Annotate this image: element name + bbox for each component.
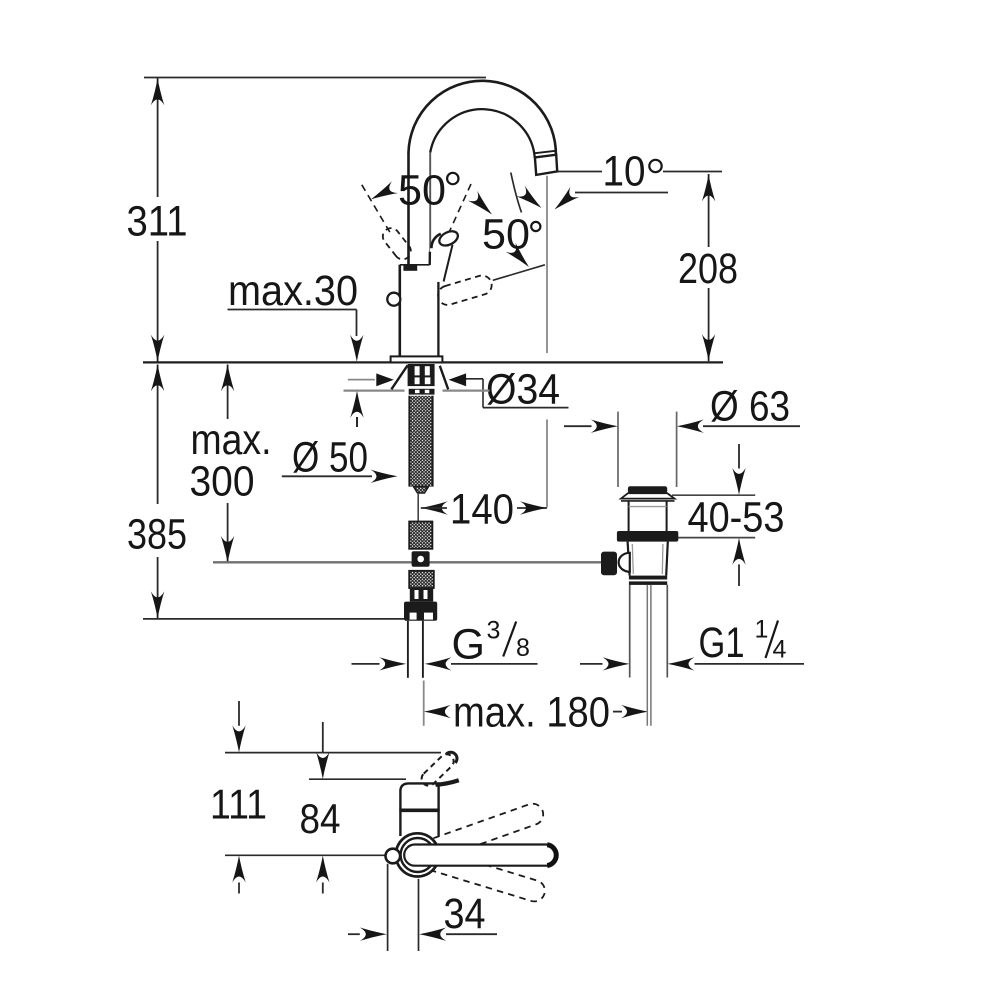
label diameter 50 with leader arrow <box>282 434 398 483</box>
cone washer right slant <box>440 366 448 390</box>
top view solid handle lever <box>404 845 557 866</box>
deck line (mounting surface) <box>143 361 723 363</box>
dashed closed-position lever (main view) <box>362 185 414 263</box>
drain body bottom bands <box>629 576 667 585</box>
svg-text:385: 385 <box>127 511 187 559</box>
drain neck <box>629 501 667 531</box>
dimension max. 180 <box>424 681 648 737</box>
axis line of open lever <box>493 265 545 281</box>
braided hose lower block <box>409 571 434 602</box>
svg-text:max.30: max.30 <box>228 267 358 315</box>
hole dimension wedge right <box>449 373 467 386</box>
label diameter 34 with bracket leader <box>462 366 569 414</box>
drain body <box>628 542 668 576</box>
dimension 84 <box>300 722 341 894</box>
angle 50 degrees (upper) <box>368 167 497 220</box>
svg-text:208: 208 <box>678 245 738 293</box>
water stream line <box>546 176 548 353</box>
svg-text:1: 1 <box>755 616 769 644</box>
svg-text:3: 3 <box>487 617 501 645</box>
svg-text:G1: G1 <box>699 619 745 667</box>
svg-text:84: 84 <box>300 795 341 842</box>
linkage rod nut <box>601 552 617 576</box>
dimension max. 300 <box>190 364 272 563</box>
svg-text:G: G <box>452 621 485 669</box>
faucet gooseneck spout outer arc <box>409 81 556 157</box>
svg-text:Ø 63: Ø 63 <box>710 383 790 431</box>
svg-text:max. 180: max. 180 <box>453 689 610 737</box>
spout tube left edge <box>407 152 410 265</box>
hole dimension wedge left <box>376 373 394 386</box>
dashed open-position lever (main view) <box>436 273 494 307</box>
supply pipe below nut <box>407 621 409 678</box>
dimension diameter 63 <box>564 383 800 488</box>
dimension 140 <box>421 486 547 534</box>
linkage ball housing <box>619 553 630 572</box>
faucet gooseneck spout inner arc <box>430 109 535 158</box>
drain tailpipe <box>647 585 651 726</box>
dimension 208 <box>678 174 738 361</box>
svg-text:50: 50 <box>482 211 530 259</box>
drain locknut ring <box>617 531 678 542</box>
svg-text:140: 140 <box>450 486 514 534</box>
top view closed dashed handle <box>419 751 459 788</box>
solid handle lever (main view) <box>430 228 461 282</box>
deck cross-section left lines <box>348 379 375 381</box>
deck cross-section right line <box>443 390 490 392</box>
svg-text:4: 4 <box>773 636 787 664</box>
svg-text:50: 50 <box>398 167 446 215</box>
svg-text:8: 8 <box>516 634 530 662</box>
dimension G1 1/4 <box>580 585 804 678</box>
lower reference line of 385 <box>143 618 404 620</box>
dimension 385 <box>127 364 187 618</box>
pop-up drain cap <box>628 486 667 493</box>
dimension 40-53 <box>672 444 785 586</box>
small screw circle on body <box>387 293 400 306</box>
dimension 311 <box>127 78 188 362</box>
linkage tee fitting <box>412 551 430 566</box>
flare connection nut G3/8 <box>404 602 437 621</box>
dimension G3/8 <box>352 617 538 671</box>
svg-text:Ø 50: Ø 50 <box>292 434 368 482</box>
top view: extension line at handle tip <box>225 752 441 754</box>
top view: extension line at handle axis <box>225 854 385 856</box>
top view base inner circle <box>401 838 435 872</box>
cone washer left slant <box>391 365 407 389</box>
dimension 111 <box>210 701 267 894</box>
spout tube right edge <box>429 152 431 265</box>
pop-up rod <box>417 493 419 523</box>
top view faucet body <box>399 783 439 836</box>
threaded shank block <box>408 364 435 395</box>
faucet body left edge <box>398 265 401 357</box>
angle 50 degrees (lower) <box>482 211 540 272</box>
svg-text:34: 34 <box>444 890 486 938</box>
svg-text:111: 111 <box>210 781 267 828</box>
svg-text:311: 311 <box>127 198 188 246</box>
svg-text:Ø34: Ø34 <box>486 366 560 414</box>
braided supply hose upper <box>409 396 432 493</box>
dark step on body shoulder <box>403 264 417 271</box>
label max.30 with leader <box>228 267 364 427</box>
svg-text:10: 10 <box>603 148 646 196</box>
label 10 degrees with lines <box>511 148 722 215</box>
top view small spout circle <box>386 849 401 864</box>
top view base outer circle <box>396 833 439 876</box>
drain flange <box>621 493 675 501</box>
base plate <box>391 356 443 362</box>
horizontal pop-up linkage rod <box>213 561 602 563</box>
faucet body upper edge <box>400 264 439 266</box>
dimension 34 <box>348 864 497 951</box>
top view dashed lever rotated up <box>401 801 546 870</box>
svg-text:40-53: 40-53 <box>688 494 785 542</box>
braided hose middle block <box>409 522 432 549</box>
dashed axis of solid handle <box>442 184 472 249</box>
extension line top of spout (311 upper reference) <box>144 77 486 79</box>
top view dashed lever rotated down <box>402 841 548 904</box>
aerator nozzle <box>535 151 557 175</box>
top view: extension line at body rear <box>309 778 406 780</box>
svg-text:300: 300 <box>190 458 255 506</box>
faucet body right edge <box>437 265 439 357</box>
